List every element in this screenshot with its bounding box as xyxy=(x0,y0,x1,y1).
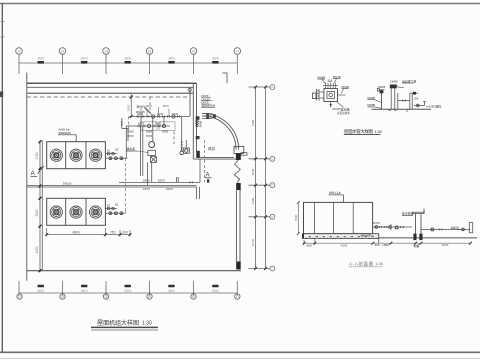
svg-text:B: B xyxy=(272,85,274,89)
svg-text:13: 13 xyxy=(61,49,65,53)
svg-text:DN70: DN70 xyxy=(172,113,179,116)
svg-text:AHU-1a: AHU-1a xyxy=(329,191,341,195)
svg-text:DN50: DN50 xyxy=(162,131,169,134)
svg-text:DN50: DN50 xyxy=(391,80,399,84)
svg-text:3600: 3600 xyxy=(168,289,175,293)
svg-text:3160: 3160 xyxy=(251,197,255,204)
svg-text:4500: 4500 xyxy=(35,246,39,253)
svg-text:溢流: 溢流 xyxy=(328,79,333,83)
svg-text:3600: 3600 xyxy=(81,56,88,60)
svg-text:接冷却塔: 接冷却塔 xyxy=(402,211,414,216)
svg-text:15: 15 xyxy=(148,49,152,53)
svg-text:E: E xyxy=(272,215,274,219)
svg-text:3600: 3600 xyxy=(37,289,44,293)
svg-text:DN70: DN70 xyxy=(143,187,150,191)
svg-text:凝结水管: 凝结水管 xyxy=(361,233,372,237)
svg-text:12: 12 xyxy=(17,49,21,53)
svg-text:D1: D1 xyxy=(107,204,111,208)
svg-text:7200: 7200 xyxy=(251,119,255,126)
svg-text:2800: 2800 xyxy=(35,209,39,216)
svg-text:DN70: DN70 xyxy=(163,106,170,108)
svg-text:i=0.003坡向: i=0.003坡向 xyxy=(427,104,442,108)
svg-text:3600: 3600 xyxy=(81,289,88,293)
svg-text:C: C xyxy=(271,157,273,161)
svg-text:2640: 2640 xyxy=(251,168,255,175)
svg-text:DN70: DN70 xyxy=(128,135,135,138)
svg-text:DN150: DN150 xyxy=(63,182,72,186)
svg-text:D2: D2 xyxy=(115,148,119,152)
svg-text:3600: 3600 xyxy=(168,56,175,60)
svg-text:4800: 4800 xyxy=(72,230,80,234)
svg-text:16: 16 xyxy=(192,295,196,299)
svg-text:3600: 3600 xyxy=(212,56,219,60)
svg-text:600: 600 xyxy=(422,208,426,213)
svg-text:D: D xyxy=(271,183,273,187)
svg-text:17: 17 xyxy=(236,295,240,299)
svg-text:排水泵: 排水泵 xyxy=(127,146,136,151)
svg-text:详见给排水: 详见给排水 xyxy=(337,111,350,115)
svg-text:DN70: DN70 xyxy=(146,106,153,108)
svg-text:3600: 3600 xyxy=(124,289,131,293)
svg-text:12: 12 xyxy=(18,295,22,299)
svg-text:9600: 9600 xyxy=(198,120,202,127)
svg-text:1:30: 1:30 xyxy=(375,130,382,134)
svg-text:1500: 1500 xyxy=(382,243,389,247)
svg-text:1:30: 1:30 xyxy=(142,321,152,327)
svg-text:DN70: DN70 xyxy=(143,178,150,182)
svg-text:屋面机组大样图: 屋面机组大样图 xyxy=(97,319,139,327)
svg-text:14: 14 xyxy=(104,295,108,299)
svg-text:3600: 3600 xyxy=(127,104,131,111)
svg-text:3000: 3000 xyxy=(442,243,449,247)
svg-text:风井: 风井 xyxy=(208,146,216,151)
svg-text:15: 15 xyxy=(148,295,152,299)
svg-text:600: 600 xyxy=(122,230,128,234)
svg-text:A-A剖面图: A-A剖面图 xyxy=(349,260,374,267)
svg-text:300: 300 xyxy=(414,97,419,101)
svg-text:14: 14 xyxy=(104,49,108,53)
svg-text:5170: 5170 xyxy=(251,239,255,246)
svg-text:600: 600 xyxy=(306,243,311,247)
svg-text:13: 13 xyxy=(61,295,65,299)
svg-text:16: 16 xyxy=(192,49,196,53)
svg-text:D2: D2 xyxy=(115,203,119,207)
svg-text:接水箱: 接水箱 xyxy=(341,107,350,112)
svg-text:3600: 3600 xyxy=(37,56,44,60)
svg-text:DN70: DN70 xyxy=(166,187,173,191)
svg-text:DN70: DN70 xyxy=(157,113,164,116)
svg-text:17: 17 xyxy=(236,49,240,53)
svg-text:D1: D1 xyxy=(107,149,111,153)
svg-text:1500: 1500 xyxy=(294,214,298,221)
svg-text:DN50: DN50 xyxy=(146,131,153,134)
svg-text:DN70: DN70 xyxy=(155,123,162,126)
svg-text:4500: 4500 xyxy=(341,243,348,247)
svg-text:3600: 3600 xyxy=(124,56,131,60)
svg-text:DN70: DN70 xyxy=(158,178,165,182)
svg-text:2700: 2700 xyxy=(35,152,39,159)
svg-text:380/4kW: 380/4kW xyxy=(59,131,71,135)
svg-text:3600: 3600 xyxy=(212,289,219,293)
svg-text:500: 500 xyxy=(374,243,379,247)
svg-text:DN70: DN70 xyxy=(333,107,341,111)
svg-text:DN70: DN70 xyxy=(373,221,381,225)
svg-text:DN70: DN70 xyxy=(137,113,144,116)
svg-text:DN25: DN25 xyxy=(378,85,386,89)
svg-text:DN50: DN50 xyxy=(128,131,135,134)
svg-text:1:30: 1:30 xyxy=(376,262,383,266)
svg-text:750: 750 xyxy=(110,230,116,234)
svg-text:DN70: DN70 xyxy=(146,135,153,138)
